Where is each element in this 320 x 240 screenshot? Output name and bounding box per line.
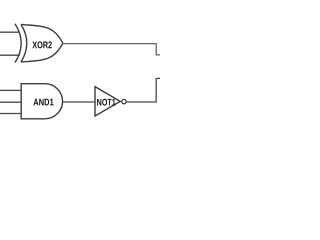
wire AND1 input 2	[0, 101, 21, 103]
wire AND1 output to NOT1 input	[63, 101, 95, 103]
wire NOT1 output to right edge (with step up)	[127, 78, 160, 102]
label XOR2	[32, 41, 51, 48]
gate XOR2 extra input-side arc	[15, 24, 21, 63]
wire AND1 input 1	[0, 89, 21, 91]
wire XOR2 input B (left edge to gate)	[0, 54, 20, 56]
gate NOT1 inversion bubble	[122, 99, 126, 103]
gate XOR2 body outline	[21, 24, 63, 62]
label NOT1	[97, 99, 115, 106]
gate AND1 body outline	[21, 84, 62, 119]
gate NOT1 triangle	[95, 87, 120, 116]
wire AND1 input 3	[0, 113, 21, 115]
label AND1	[33, 99, 53, 106]
wire XOR2 input A (left edge to gate)	[0, 31, 20, 33]
wire XOR2 output to right edge (with step down)	[63, 44, 160, 55]
